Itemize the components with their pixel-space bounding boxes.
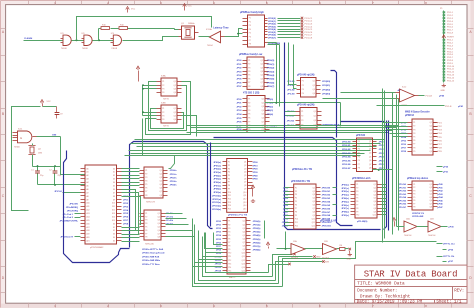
svg-text:JP0x/IORQ: JP0x/IORQ bbox=[67, 210, 79, 212]
net label video pro bbox=[292, 169, 313, 171]
net label CLK bbox=[24, 37, 32, 40]
vcc near B3 bbox=[392, 218, 396, 227]
svg-text:STAR IV Data Board: STAR IV Data Board bbox=[364, 269, 458, 279]
svg-text:P1/1-4: P1/1-4 bbox=[447, 21, 454, 23]
svg-text:D2: D2 bbox=[113, 175, 115, 177]
svg-text:Q7: Q7 bbox=[243, 242, 245, 244]
buffer IC13B bbox=[322, 241, 340, 259]
svg-text:P4: P4 bbox=[249, 29, 251, 31]
svg-text:Q1: Q1 bbox=[174, 81, 176, 83]
connector P1 pins bbox=[443, 11, 454, 34]
svg-text:74F08: 74F08 bbox=[61, 48, 68, 50]
svg-text:Q3: Q3 bbox=[369, 149, 371, 151]
svg-text:16MHz: 16MHz bbox=[188, 23, 195, 25]
svg-text:JP04: JP04 bbox=[123, 209, 129, 212]
U16 left labels bbox=[399, 184, 407, 209]
svg-text:74F04: 74F04 bbox=[207, 45, 214, 47]
svg-text:MNS N Space Decoder: MNS N Space Decoder bbox=[405, 112, 430, 114]
U1 right pin labels and bundle wires bbox=[265, 17, 313, 40]
svg-text:Q3: Q3 bbox=[313, 89, 315, 91]
U11 left labels bbox=[215, 221, 222, 273]
IC U9 flipflop bbox=[157, 105, 182, 123]
U10 right labels bbox=[253, 162, 259, 181]
svg-text:A8: A8 bbox=[87, 195, 89, 198]
svg-text:JP0-N1: JP0-N1 bbox=[399, 187, 407, 189]
svg-text:A4: A4 bbox=[87, 181, 89, 184]
svg-text:µPD 4464 (LAR): µPD 4464 (LAR) bbox=[320, 220, 337, 223]
svg-text:Q8: Q8 bbox=[374, 208, 376, 210]
svg-text:Q4: Q4 bbox=[174, 92, 176, 94]
svg-text:Q1: Q1 bbox=[374, 184, 376, 186]
svg-text:P1: P1 bbox=[295, 187, 297, 189]
svg-text:µP43: µP43 bbox=[438, 193, 444, 196]
svg-text:A5: A5 bbox=[87, 185, 89, 188]
svg-text:JP00: JP00 bbox=[236, 60, 242, 62]
svg-text:P4: P4 bbox=[413, 133, 415, 135]
svg-text:JP00-N0: JP00-N0 bbox=[322, 188, 331, 190]
svg-text:µP40: µP40 bbox=[438, 183, 444, 186]
svg-text:JP00-N4: JP00-N4 bbox=[342, 156, 351, 159]
svg-text:Q7: Q7 bbox=[158, 233, 160, 235]
U1 header label bbox=[240, 11, 264, 14]
svg-text:Q3: Q3 bbox=[313, 194, 315, 196]
svg-text:P2: P2 bbox=[162, 85, 164, 87]
svg-text:Q12: Q12 bbox=[312, 225, 315, 227]
svg-text:Q2: Q2 bbox=[313, 191, 315, 193]
svg-text:Q1: Q1 bbox=[314, 111, 316, 113]
svg-text:JP03(c): JP03(c) bbox=[341, 195, 349, 197]
svg-text:Q7: Q7 bbox=[160, 191, 162, 193]
svg-text:µPD70008AC: µPD70008AC bbox=[90, 246, 104, 249]
U12 header bbox=[291, 180, 311, 183]
svg-text:Q5: Q5 bbox=[158, 227, 160, 229]
CPU inner pin names bbox=[87, 167, 116, 242]
op-amp IC12 bbox=[396, 87, 419, 107]
svg-text:A10: A10 bbox=[87, 202, 90, 205]
svg-text:P4: P4 bbox=[295, 198, 297, 200]
svg-text:P9: P9 bbox=[228, 249, 230, 251]
svg-text:Q1: Q1 bbox=[262, 99, 264, 101]
svg-text:P1/2-14: P1/2-14 bbox=[447, 77, 455, 79]
svg-text:Q8: Q8 bbox=[244, 185, 246, 187]
wire op-amp output bbox=[419, 95, 445, 98]
svg-text:P8: P8 bbox=[228, 185, 230, 187]
bus corner x336 to x386 bbox=[341, 121, 385, 123]
svg-text:P2: P2 bbox=[145, 216, 147, 218]
svg-text:P1/2-7: P1/2-7 bbox=[447, 57, 454, 59]
svg-text:JP03(a): JP03(a) bbox=[213, 172, 221, 174]
U4A right labels bbox=[322, 81, 330, 96]
svg-text:P9: P9 bbox=[413, 151, 415, 153]
svg-text:D1: D1 bbox=[113, 172, 115, 174]
svg-text:A18: A18 bbox=[87, 229, 90, 232]
svg-text:P5: P5 bbox=[248, 114, 250, 116]
gate IC9B bbox=[81, 33, 92, 50]
bus vertical x284 bbox=[285, 43, 381, 230]
svg-text:µPD 8DD/a Latch: µPD 8DD/a Latch bbox=[352, 177, 371, 180]
svg-text:Latency Time: Latency Time bbox=[213, 26, 229, 29]
svg-text:Q5: Q5 bbox=[261, 75, 263, 77]
svg-text:JP00-N4: JP00-N4 bbox=[322, 200, 331, 203]
svg-text:JP012: JP012 bbox=[215, 264, 222, 266]
svg-text:JP07(b): JP07(b) bbox=[253, 246, 261, 248]
svg-text:Q1: Q1 bbox=[313, 187, 315, 189]
wires flipflop inputs bbox=[142, 84, 156, 115]
svg-text:D5: D5 bbox=[113, 186, 115, 188]
U10 refdes below bbox=[228, 215, 248, 217]
svg-text:P4: P4 bbox=[356, 194, 358, 196]
wires flipflop loops bbox=[146, 82, 191, 135]
svg-text:JP00(0): JP00(0) bbox=[267, 60, 275, 62]
svg-text:µPD 640 nji(1N): µPD 640 nji(1N) bbox=[297, 73, 315, 76]
svg-text:P3: P3 bbox=[145, 177, 147, 179]
svg-text:JP00/a: JP00/a bbox=[170, 170, 178, 172]
svg-text:P1/1-C6: P1/1-C6 bbox=[305, 32, 313, 34]
svg-text:Q3: Q3 bbox=[374, 191, 376, 193]
svg-text:D10: D10 bbox=[112, 203, 115, 205]
svg-text:A2: A2 bbox=[87, 174, 89, 177]
svg-text:JP02: JP02 bbox=[236, 68, 242, 70]
wires U11 left pins to trunk bbox=[193, 253, 223, 267]
svg-text:Q8: Q8 bbox=[430, 147, 432, 149]
svg-text:Q14: Q14 bbox=[243, 205, 246, 207]
wire U11 right vertical bbox=[264, 221, 266, 239]
svg-text:JP05: JP05 bbox=[236, 118, 242, 120]
svg-text:D11: D11 bbox=[112, 206, 115, 208]
bus ring around CPU bbox=[64, 142, 213, 263]
svg-text:JP00-N0: JP00-N0 bbox=[342, 141, 351, 143]
U15 left labels bbox=[401, 122, 407, 153]
svg-text:JP00(7): JP00(7) bbox=[268, 38, 276, 40]
svg-text:P8: P8 bbox=[358, 168, 360, 170]
svg-text:VCC: VCC bbox=[131, 9, 136, 11]
svg-text:JP01: JP01 bbox=[379, 145, 385, 147]
wire riser to latency net bbox=[77, 17, 212, 41]
svg-text:JP00-N11: JP00-N11 bbox=[322, 226, 333, 228]
wire trunk greens upper bbox=[187, 126, 399, 133]
U4A left labels bbox=[287, 81, 295, 96]
IC U2 bus buffer low bbox=[243, 57, 269, 89]
wires to U15 left bbox=[383, 123, 408, 137]
connector P1 rail bbox=[440, 8, 444, 83]
svg-text:JP05: JP05 bbox=[216, 239, 222, 241]
svg-text:JP00: JP00 bbox=[216, 221, 222, 223]
svg-text:µPD/Video Pro T/S: µPD/Video Pro T/S bbox=[292, 169, 313, 171]
IC U1 bus buffer high bbox=[243, 15, 265, 47]
svg-text:P2: P2 bbox=[301, 115, 303, 117]
svg-text:P4: P4 bbox=[228, 172, 230, 174]
svg-text:P7: P7 bbox=[249, 40, 251, 42]
svg-text:P1/1-2: P1/1-2 bbox=[447, 15, 454, 17]
svg-text:P7: P7 bbox=[145, 191, 147, 193]
svg-text:P8: P8 bbox=[249, 44, 251, 46]
U6 refdes bbox=[146, 202, 156, 204]
svg-text:P4: P4 bbox=[413, 194, 415, 196]
svg-text:JP03: JP03 bbox=[123, 206, 129, 208]
svg-text:Q7: Q7 bbox=[430, 144, 432, 146]
svg-text:JP0(4): JP0(4) bbox=[267, 113, 274, 116]
svg-text:P2: P2 bbox=[356, 188, 358, 190]
IC U4B bbox=[296, 108, 322, 130]
svg-text:P1/1-C7: P1/1-C7 bbox=[305, 35, 313, 37]
wire buffer output to U1 bbox=[225, 29, 243, 37]
U13 header bbox=[356, 134, 366, 137]
svg-text:µPD 640: µPD 640 bbox=[356, 134, 366, 137]
U12 left labels bbox=[282, 188, 289, 228]
svg-text:JP/BTW CS: JP/BTW CS bbox=[412, 213, 424, 215]
svg-text:JP05(c): JP05(c) bbox=[341, 201, 349, 203]
svg-text:P15: P15 bbox=[228, 209, 231, 211]
svg-text:A0: A0 bbox=[87, 167, 89, 170]
svg-text:P4: P4 bbox=[145, 223, 147, 225]
svg-text:Q7: Q7 bbox=[374, 205, 376, 207]
svg-text:µP41: µP41 bbox=[458, 105, 464, 108]
svg-text:JPx2/b: JPx2/b bbox=[166, 220, 174, 222]
svg-text:JP012(a): JP012(a) bbox=[212, 202, 221, 204]
svg-text:A6: A6 bbox=[87, 188, 89, 191]
svg-text:Q5: Q5 bbox=[160, 184, 162, 186]
svg-text:JP00-N6: JP00-N6 bbox=[322, 208, 331, 210]
svg-text:JP06(c): JP06(c) bbox=[341, 205, 349, 207]
svg-text:Q10: Q10 bbox=[242, 253, 245, 255]
svg-text:JP00-N8: JP00-N8 bbox=[322, 215, 331, 217]
wire stubs right labels bbox=[437, 244, 447, 262]
svg-text:Q8: Q8 bbox=[261, 86, 263, 88]
svg-text:P6: P6 bbox=[145, 230, 147, 232]
U7 refdes bbox=[145, 244, 155, 246]
svg-text:JP05: JP05 bbox=[123, 213, 129, 215]
svg-text:Q1: Q1 bbox=[369, 141, 371, 143]
svg-text:JP07: JP07 bbox=[283, 212, 289, 214]
svg-text:P3: P3 bbox=[358, 149, 360, 151]
svg-text:P1/1-3: P1/1-3 bbox=[447, 18, 454, 20]
svg-text:Q4: Q4 bbox=[160, 181, 162, 183]
svg-text:VCC: VCC bbox=[47, 101, 52, 103]
svg-text:Q7: Q7 bbox=[313, 208, 315, 210]
svg-text:Q4: Q4 bbox=[158, 223, 160, 225]
svg-text:Q8: Q8 bbox=[160, 195, 162, 197]
svg-text:P1: P1 bbox=[145, 213, 147, 215]
svg-text:P1/1-C4: P1/1-C4 bbox=[305, 26, 313, 28]
svg-text:JP03: JP03 bbox=[283, 198, 289, 200]
svg-text:Q7: Q7 bbox=[244, 182, 246, 184]
vcc marks top center bbox=[126, 7, 136, 13]
svg-text:P11: P11 bbox=[228, 256, 231, 258]
svg-text:74F08: 74F08 bbox=[82, 48, 89, 50]
svg-text:JP08: JP08 bbox=[123, 224, 129, 226]
svg-text:JP01: JP01 bbox=[216, 225, 222, 227]
svg-text:Q4: Q4 bbox=[430, 194, 432, 196]
svg-text:JP00-N1: JP00-N1 bbox=[342, 145, 351, 147]
svg-text:IC10A: IC10A bbox=[206, 28, 212, 31]
svg-text:JP08(b): JP08(b) bbox=[253, 249, 261, 251]
svg-text:Q8: Q8 bbox=[243, 246, 245, 248]
svg-text:P12: P12 bbox=[228, 198, 231, 200]
svg-text:JP08: JP08 bbox=[216, 249, 222, 251]
svg-text:Q1: Q1 bbox=[313, 81, 315, 83]
svg-text:JP06: JP06 bbox=[379, 164, 385, 166]
svg-text:JP0x/M1: JP0x/M1 bbox=[69, 204, 79, 206]
wire trunk greens mid bbox=[125, 140, 385, 156]
svg-text:Q6: Q6 bbox=[374, 201, 376, 203]
bus vertical x210.5 pair bbox=[210, 143, 212, 227]
U14 left labels bbox=[341, 184, 349, 217]
svg-text:P2: P2 bbox=[248, 64, 250, 66]
net label Latency Time bbox=[213, 26, 229, 29]
svg-text:Q13: Q13 bbox=[243, 202, 246, 204]
svg-text:Q12: Q12 bbox=[242, 260, 245, 262]
svg-text:Q13: Q13 bbox=[242, 263, 245, 265]
buffer IC13A bbox=[277, 232, 323, 260]
svg-text:JP05: JP05 bbox=[379, 160, 385, 162]
svg-text:P1/1-7: P1/1-7 bbox=[447, 30, 454, 32]
CPU refdes bbox=[90, 246, 104, 249]
svg-text:Q14: Q14 bbox=[242, 267, 245, 269]
wire verticals x204-213 lower bbox=[205, 233, 223, 249]
svg-text:P1: P1 bbox=[162, 108, 164, 110]
svg-text:P14: P14 bbox=[228, 205, 231, 207]
svg-text:µPD/and top dunno: µPD/and top dunno bbox=[407, 177, 429, 180]
svg-text:P5: P5 bbox=[413, 197, 415, 199]
IC U15 decoder bbox=[408, 119, 438, 155]
svg-text:P4: P4 bbox=[162, 119, 164, 121]
svg-text:Q5: Q5 bbox=[313, 201, 315, 203]
svg-text:Q3: Q3 bbox=[430, 190, 432, 192]
svg-text:Q10: Q10 bbox=[373, 215, 376, 217]
svg-text:A19: A19 bbox=[87, 233, 90, 236]
svg-text:Q5: Q5 bbox=[244, 175, 246, 177]
svg-text:A11: A11 bbox=[87, 205, 90, 208]
svg-text:JP011: JP011 bbox=[215, 260, 222, 262]
svg-text:CLK/4M: CLK/4M bbox=[24, 37, 32, 40]
svg-text:Q8: Q8 bbox=[313, 211, 315, 213]
svg-text:P1/1-8: P1/1-8 bbox=[447, 33, 454, 35]
svg-text:P4: P4 bbox=[145, 181, 147, 183]
IC U6 latch bbox=[140, 167, 168, 198]
svg-text:A1: A1 bbox=[87, 171, 89, 174]
svg-text:JP000x Startup/Inside: JP000x Startup/Inside bbox=[142, 252, 166, 255]
svg-text:P1: P1 bbox=[228, 221, 230, 223]
svg-text:P1: P1 bbox=[301, 111, 303, 113]
svg-text:Q2: Q2 bbox=[158, 216, 160, 218]
svg-text:P1/1-5: P1/1-5 bbox=[447, 24, 454, 26]
svg-text:P1/1-C5: P1/1-C5 bbox=[305, 29, 313, 31]
svg-text:P6: P6 bbox=[228, 238, 230, 240]
svg-text:Q7: Q7 bbox=[430, 203, 432, 205]
svg-text:µP07: µP07 bbox=[448, 261, 454, 263]
svg-text:P13: P13 bbox=[228, 263, 231, 265]
wires CPU right labels bbox=[123, 196, 129, 226]
svg-text:µPD/Ctrl: µPD/Ctrl bbox=[405, 114, 414, 117]
wires CPU to U6 bbox=[122, 169, 140, 186]
svg-text:P7: P7 bbox=[358, 164, 360, 166]
IC U8 flipflop bbox=[157, 78, 182, 96]
svg-text:P1/2-3: P1/2-3 bbox=[447, 46, 454, 48]
svg-text:P6: P6 bbox=[248, 118, 250, 120]
svg-text:Date: 9/15/2019 7:09:23 PM: Date: 9/15/2019 7:09:23 PM bbox=[357, 300, 423, 305]
svg-text:P7: P7 bbox=[295, 208, 297, 210]
svg-text:P1: P1 bbox=[413, 184, 415, 186]
svg-text:D4: D4 bbox=[113, 237, 115, 239]
IC U10 bbox=[223, 159, 253, 213]
svg-text:P3: P3 bbox=[295, 194, 297, 196]
title block bbox=[355, 265, 468, 305]
svg-text:Q1: Q1 bbox=[430, 122, 432, 124]
svg-text:P8: P8 bbox=[356, 208, 358, 210]
svg-text:MB7TL: MB7TL bbox=[229, 277, 237, 279]
svg-text:JP20: JP20 bbox=[253, 169, 259, 171]
svg-text:74HC04: 74HC04 bbox=[404, 235, 412, 237]
U10 left labels bbox=[212, 162, 221, 211]
IC U13 bbox=[353, 138, 377, 172]
wire B2 out resistor and gnd bbox=[340, 245, 353, 260]
svg-text:µP47: µP47 bbox=[438, 206, 444, 209]
svg-text:JP04: JP04 bbox=[236, 74, 242, 77]
svg-text:P5: P5 bbox=[248, 75, 250, 77]
svg-text:P1/2-1: P1/2-1 bbox=[447, 40, 454, 42]
svg-text:JP00(3): JP00(3) bbox=[268, 26, 276, 28]
svg-text:JP0-N5: JP0-N5 bbox=[399, 200, 407, 202]
svg-text:P2: P2 bbox=[302, 85, 304, 87]
svg-text:P6: P6 bbox=[228, 178, 230, 180]
svg-text:Q2: Q2 bbox=[374, 188, 376, 190]
svg-text:JP09(c): JP09(c) bbox=[341, 215, 349, 217]
wires U14 right to bus bbox=[382, 185, 387, 215]
svg-text:P5: P5 bbox=[145, 184, 147, 186]
U4A header bbox=[297, 73, 315, 76]
svg-text:P1: P1 bbox=[228, 162, 230, 164]
svg-text:JP011(a): JP011(a) bbox=[212, 199, 221, 201]
svg-text:Q2: Q2 bbox=[313, 85, 315, 87]
svg-text:P9: P9 bbox=[228, 188, 230, 190]
svg-text:Q12: Q12 bbox=[243, 198, 246, 200]
svg-text:JP00-N2: JP00-N2 bbox=[322, 195, 331, 197]
svg-text:JP0(2): JP0(2) bbox=[267, 106, 274, 108]
wire NAND output right bbox=[37, 137, 61, 167]
svg-text:P2: P2 bbox=[295, 191, 297, 193]
buffer IC10A bbox=[199, 28, 225, 47]
svg-text:JP00-N3: JP00-N3 bbox=[342, 153, 351, 155]
svg-text:µPD/Video Pro T/S: µPD/Video Pro T/S bbox=[228, 215, 248, 217]
svg-text:JP40: JP40 bbox=[253, 174, 259, 177]
svg-text:IC8B: IC8B bbox=[161, 103, 166, 105]
svg-text:JP013: JP013 bbox=[215, 267, 222, 269]
svg-text:Q11: Q11 bbox=[242, 256, 245, 258]
svg-text:P6: P6 bbox=[413, 200, 415, 202]
svg-text:Q4: Q4 bbox=[313, 198, 315, 200]
svg-text:D5: D5 bbox=[113, 241, 115, 243]
svg-text:JP0-N2: JP0-N2 bbox=[287, 120, 295, 122]
svg-text:P3: P3 bbox=[248, 67, 250, 69]
wire reset into CPU left bbox=[60, 236, 80, 239]
wire U6 diag to trunk bbox=[169, 156, 175, 169]
svg-text:JP07(c): JP07(c) bbox=[341, 208, 349, 210]
vcc left area bbox=[40, 100, 63, 119]
vcc near B1 bbox=[266, 242, 270, 249]
svg-text:P1: P1 bbox=[249, 18, 251, 20]
svg-text:JP/CLK: JP/CLK bbox=[54, 191, 62, 193]
svg-text:Q4: Q4 bbox=[244, 172, 246, 174]
svg-text:JP03: JP03 bbox=[379, 153, 385, 155]
svg-text:JP0-N4: JP0-N4 bbox=[399, 196, 407, 199]
svg-text:Q5: Q5 bbox=[430, 137, 432, 139]
svg-text:JP03/a: JP03/a bbox=[170, 181, 178, 183]
IC U7 latch bbox=[140, 210, 166, 240]
label B4 out bbox=[449, 227, 455, 229]
svg-text:JPxx/WAITCNTRL: JPxx/WAITCNTRL bbox=[59, 220, 78, 223]
svg-text:JP000x NMI RxB: JP000x NMI RxB bbox=[142, 256, 160, 258]
svg-text:JP02/a: JP02/a bbox=[170, 177, 178, 179]
